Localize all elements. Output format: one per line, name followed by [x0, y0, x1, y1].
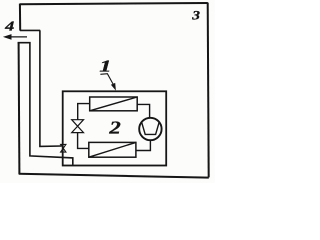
inlet damper valve on unit left wall [61, 144, 66, 152]
exhaust flow arrow shaft (4) [11, 36, 27, 38]
duct opening top lintel [20, 29, 40, 31]
svg-text:4: 4 [4, 20, 14, 34]
bottom heat exchanger (evaporator) [89, 142, 136, 157]
room left wall lower segment [18, 42, 21, 174]
room enclosure (space 3) top wall [20, 3, 208, 4]
top heat exchanger diagonal [90, 97, 138, 111]
room bottom wall [19, 174, 209, 178]
exhaust duct left/bottom wall [18, 43, 73, 165]
refrigerant pipe: top HX right to compressor [137, 104, 149, 118]
room left wall upper segment [19, 4, 21, 31]
exhaust flow arrowhead [3, 34, 12, 40]
room right wall [208, 3, 209, 178]
svg-text:1: 1 [99, 57, 111, 76]
bottom heat exchanger diagonal [89, 142, 136, 157]
refrigerant pipe: top HX left to expansion valve [78, 104, 90, 120]
leader arrowhead for label 1 [111, 83, 116, 91]
svg-text:3: 3 [191, 9, 200, 23]
compressor (2) circle [139, 118, 161, 140]
leader line for label 1 [100, 74, 113, 85]
compressor internal chords [142, 122, 160, 134]
indoor unit box (1) [63, 91, 167, 165]
refrigerant pipe: expansion valve to bottom HX left [78, 133, 89, 149]
top heat exchanger (condenser) [90, 97, 138, 111]
exhaust duct right wall [40, 30, 61, 146]
svg-text:2: 2 [108, 118, 121, 137]
expansion valve (two triangles) [72, 120, 84, 127]
refrigerant pipe: compressor to bottom HX right [136, 140, 151, 150]
